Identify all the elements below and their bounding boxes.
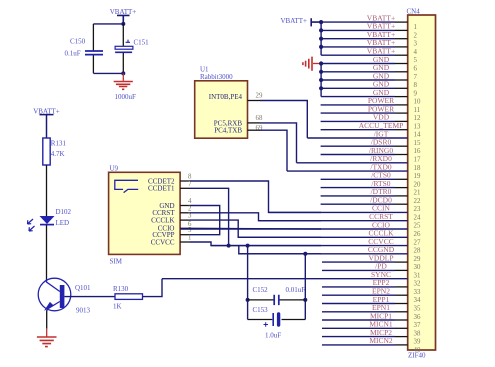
node left rail top bbox=[246, 244, 250, 248]
svg-text:SIM: SIM bbox=[110, 258, 123, 266]
capacitor C150 bbox=[65, 37, 104, 57]
svg-text:5: 5 bbox=[414, 57, 418, 64]
pin 33 CN4 EPP2 bbox=[322, 278, 421, 296]
svg-text:Q101: Q101 bbox=[75, 284, 91, 292]
wire R130 to SYNC riser bbox=[143, 279, 163, 297]
pin 5 CN4 VBATT+ bbox=[321, 47, 417, 65]
svg-text:21: 21 bbox=[414, 190, 421, 197]
svg-text:LED: LED bbox=[56, 219, 70, 227]
svg-text:13: 13 bbox=[414, 123, 421, 130]
node VBATT bus pin4 bbox=[319, 45, 323, 49]
svg-text:25: 25 bbox=[414, 223, 421, 230]
svg-text:VBATT+: VBATT+ bbox=[280, 17, 307, 25]
svg-text:37: 37 bbox=[414, 322, 421, 329]
svg-text:PC4,TXB: PC4,TXB bbox=[214, 127, 242, 135]
svg-text:4.7K: 4.7K bbox=[51, 150, 65, 158]
pin 7 CN4 GND bbox=[321, 63, 417, 81]
connector CN4 ZIF40 bbox=[407, 8, 436, 360]
pin 23 CN4 /DCD0 bbox=[321, 196, 421, 214]
svg-text:9: 9 bbox=[414, 90, 418, 97]
svg-text:29: 29 bbox=[256, 93, 263, 100]
svg-text:22: 22 bbox=[414, 198, 421, 205]
svg-text:7: 7 bbox=[188, 181, 192, 188]
svg-text:27: 27 bbox=[414, 239, 421, 246]
wire LED to Q101 collector bbox=[46, 225, 48, 280]
resistor R130 bbox=[113, 285, 143, 310]
pin 8 U9 CCDET2 bbox=[148, 174, 192, 186]
pin 36 CN4 EPN1 bbox=[322, 303, 421, 321]
pin 6 CN4 GND bbox=[321, 55, 417, 73]
wire R131 to LED bbox=[46, 165, 48, 216]
node GND bus pin7 bbox=[319, 70, 323, 74]
pin 19 CN4 /TXD0 bbox=[287, 162, 421, 180]
svg-text:4: 4 bbox=[188, 198, 192, 205]
wire VBATT bus bbox=[320, 22, 322, 55]
pin 14 CN4 ACCU_TEMP bbox=[321, 121, 421, 139]
svg-text:19: 19 bbox=[414, 173, 421, 180]
svg-text:9013: 9013 bbox=[76, 307, 91, 315]
pin 39 CN4 MICP2 bbox=[322, 328, 421, 346]
pin 20 CN4 /CTS0 bbox=[321, 171, 421, 189]
capacitor C153 (polarized 1.0uF) bbox=[248, 306, 306, 340]
svg-text:CCVCC: CCVCC bbox=[151, 238, 175, 246]
ground (earth, top-left) bbox=[114, 73, 133, 89]
capacitor C151 (electrolytic 1000uF) bbox=[115, 38, 150, 101]
wire CCVCC jog and row bbox=[190, 242, 321, 246]
svg-text:18: 18 bbox=[414, 165, 421, 172]
svg-text:39: 39 bbox=[414, 339, 421, 346]
pin 13 CN4 VDD bbox=[321, 113, 421, 131]
svg-text:3: 3 bbox=[188, 213, 192, 220]
pin 37 CN4 MICP1 bbox=[322, 311, 421, 329]
svg-text:C150: C150 bbox=[70, 37, 86, 45]
wire GND bus bbox=[320, 64, 322, 97]
svg-text:68: 68 bbox=[256, 115, 263, 122]
pin 22 CN4 /DTR0 bbox=[321, 187, 421, 205]
svg-text:INT0B,PE4: INT0B,PE4 bbox=[209, 93, 243, 101]
wire bottom rail bbox=[93, 72, 123, 74]
pin 12 CN4 POWER bbox=[321, 104, 421, 122]
pin 25 CN4 CCRST bbox=[259, 212, 421, 230]
pin 4 CN4 VBATT+ bbox=[321, 38, 417, 56]
pin 28 CN4 CCVCC bbox=[211, 237, 421, 255]
pin 3 U9 CCCLK bbox=[151, 213, 192, 225]
node VBATT junction bbox=[121, 22, 125, 26]
svg-text:3: 3 bbox=[414, 41, 418, 48]
svg-text:33: 33 bbox=[414, 289, 421, 296]
power VBATT+ (left) bbox=[33, 107, 60, 138]
svg-text:20: 20 bbox=[414, 181, 421, 188]
svg-text:12: 12 bbox=[414, 115, 421, 122]
svg-text:C152: C152 bbox=[253, 286, 269, 294]
node VBATT bus pin1 bbox=[319, 20, 323, 24]
svg-text:7: 7 bbox=[414, 74, 418, 81]
svg-text:34: 34 bbox=[414, 297, 421, 304]
node VBATT bus pin3 bbox=[319, 37, 323, 41]
svg-text:1000uF: 1000uF bbox=[115, 93, 137, 101]
pin 6 U9 CCIO bbox=[158, 221, 192, 233]
pin 2 U9 CCRST bbox=[152, 205, 192, 217]
op-amp U1 Rabbit3000 bbox=[195, 66, 248, 139]
svg-text:69: 69 bbox=[256, 125, 263, 132]
svg-text:1: 1 bbox=[188, 235, 192, 242]
wire CCGND row with jog bbox=[239, 246, 321, 254]
wire CCDET1 riser bbox=[190, 188, 229, 245]
node CCGND/cap-rail junction bbox=[303, 252, 307, 256]
pin 40 CN4 MICN2 bbox=[322, 336, 421, 354]
svg-text:C151: C151 bbox=[134, 38, 150, 46]
node GND bus pin9 bbox=[319, 86, 323, 90]
wire CCIO row bbox=[190, 227, 321, 230]
pin 34 CN4 EPN2 bbox=[322, 287, 421, 305]
svg-text:32: 32 bbox=[414, 281, 421, 288]
wire CCCLK jog bbox=[190, 220, 321, 237]
svg-text:2: 2 bbox=[188, 205, 192, 212]
svg-text:14: 14 bbox=[414, 132, 421, 139]
svg-text:6: 6 bbox=[414, 66, 418, 73]
svg-text:R131: R131 bbox=[51, 139, 67, 147]
pin 18 CN4 /RXD0 bbox=[297, 154, 421, 172]
pin 1 U9 CCVCC bbox=[151, 235, 192, 247]
pin 10 CN4 GND bbox=[321, 88, 421, 106]
svg-text:1.0uF: 1.0uF bbox=[265, 332, 281, 340]
pin 9 CN4 GND bbox=[321, 80, 417, 98]
svg-text:17: 17 bbox=[414, 157, 421, 164]
pin 29 U1 bbox=[248, 93, 263, 101]
svg-text:30: 30 bbox=[414, 264, 421, 271]
node right rail C152 bbox=[303, 298, 307, 302]
node ground junction bbox=[121, 71, 125, 75]
svg-text:1: 1 bbox=[414, 24, 418, 31]
pin 26 CN4 CCIO bbox=[180, 220, 421, 238]
svg-text:24: 24 bbox=[414, 214, 421, 221]
node VBATT bus pin2 bbox=[319, 28, 323, 32]
wire CCDET2 to CCIN bbox=[190, 181, 321, 212]
svg-text:R130: R130 bbox=[113, 285, 129, 293]
pin 4 U9 GND bbox=[159, 198, 192, 210]
pin 35 CN4 EPP1 bbox=[322, 295, 421, 313]
wire U1.29 to /IGT bbox=[260, 101, 307, 138]
power VBATT+ (at CN4 pin1) bbox=[280, 17, 321, 26]
power VBATT+ (top-left) bbox=[110, 8, 137, 24]
svg-text:2: 2 bbox=[414, 32, 418, 39]
svg-text:40: 40 bbox=[414, 347, 421, 354]
svg-text:15: 15 bbox=[414, 140, 421, 147]
svg-text:8: 8 bbox=[188, 174, 192, 181]
pin 17 CN4 /RING0 bbox=[321, 146, 421, 164]
pin 15 CN4 /IGT bbox=[307, 129, 421, 147]
node GND bus pin8 bbox=[319, 78, 323, 82]
pin 16 CN4 /DSR0 bbox=[321, 138, 421, 156]
svg-text:31: 31 bbox=[414, 272, 421, 279]
svg-text:10: 10 bbox=[414, 99, 421, 106]
ground (at CN4 pin6, sideways) bbox=[303, 57, 321, 71]
svg-text:D102: D102 bbox=[56, 208, 72, 216]
pin 32 CN4 SYNC bbox=[162, 270, 421, 288]
wire C150 branch bbox=[92, 24, 94, 73]
pin 24 CN4 CCIN bbox=[269, 204, 421, 222]
svg-text:C153: C153 bbox=[253, 306, 269, 314]
switch glyph inside U9 bbox=[115, 180, 138, 192]
pin 31 CN4 /PD bbox=[322, 262, 421, 280]
pin 68 U1 bbox=[248, 115, 263, 123]
svg-text:36: 36 bbox=[414, 314, 421, 321]
svg-text:28: 28 bbox=[414, 248, 421, 255]
pin 1 CN4 VBATT+ bbox=[321, 13, 417, 31]
wire capacitor right rail bbox=[304, 254, 306, 320]
node GND bus pin6 bbox=[319, 61, 323, 65]
svg-text:26: 26 bbox=[414, 231, 421, 238]
wire Q101 emitter to ground bbox=[46, 311, 48, 329]
wire U1.68 to /RXD0 bbox=[260, 123, 297, 163]
pin 27 CN4 CCCLK bbox=[238, 229, 421, 247]
svg-text:11: 11 bbox=[414, 107, 421, 114]
node CCDET1/CCVCC junction bbox=[227, 244, 231, 248]
resistor R131 bbox=[43, 138, 67, 165]
capacitor C152 bbox=[248, 286, 306, 305]
svg-text:1K: 1K bbox=[113, 302, 122, 310]
pin 29 CN4 CCGND bbox=[239, 245, 421, 263]
pin 2 CN4 VBATT+ bbox=[321, 22, 417, 40]
svg-text:29: 29 bbox=[414, 256, 421, 263]
svg-text:Rabbit3000: Rabbit3000 bbox=[200, 73, 233, 81]
LED D102 bbox=[28, 208, 72, 231]
pin 69 U1 bbox=[248, 125, 263, 132]
svg-text:MICN2: MICN2 bbox=[369, 336, 393, 345]
svg-text:0.01uF: 0.01uF bbox=[286, 286, 306, 294]
svg-text:8: 8 bbox=[414, 82, 418, 89]
pin 3 CN4 VBATT+ bbox=[321, 30, 417, 48]
svg-text:23: 23 bbox=[414, 206, 421, 213]
pin 30 CN4 VDDLP bbox=[322, 253, 421, 271]
ground (earth, bottom-left) bbox=[37, 337, 57, 347]
wire C151 branch bbox=[122, 24, 124, 74]
pin 11 CN4 POWER bbox=[321, 96, 421, 114]
wire top rail bbox=[93, 23, 123, 25]
connector U9 SIM bbox=[109, 165, 181, 266]
svg-text:16: 16 bbox=[414, 148, 421, 155]
pin 21 CN4 /RTS0 bbox=[321, 179, 421, 197]
wire CCRST jog bbox=[190, 213, 321, 221]
svg-text:CCCLK: CCCLK bbox=[151, 217, 174, 225]
svg-text:CCDET1: CCDET1 bbox=[148, 185, 175, 193]
pin 5 U9 CCVPP bbox=[152, 227, 192, 239]
node left rail C152 bbox=[246, 298, 250, 302]
svg-text:38: 38 bbox=[414, 330, 421, 337]
pin 7 U9 CCDET1 bbox=[148, 181, 192, 193]
svg-text:35: 35 bbox=[414, 306, 421, 313]
transistor Q101 (9013 PNP-style, base right) bbox=[38, 278, 115, 314]
pin 8 CN4 GND bbox=[321, 71, 417, 89]
svg-text:4: 4 bbox=[414, 49, 418, 56]
wire U1.69 to /TXD0 bbox=[260, 130, 287, 171]
wire capacitor left rail bbox=[247, 246, 249, 320]
svg-text:U9: U9 bbox=[110, 165, 119, 173]
wire GND-CCVPP tie bbox=[190, 206, 220, 235]
svg-text:0.1uF: 0.1uF bbox=[65, 49, 81, 57]
pin 38 CN4 MICN1 bbox=[322, 320, 421, 338]
